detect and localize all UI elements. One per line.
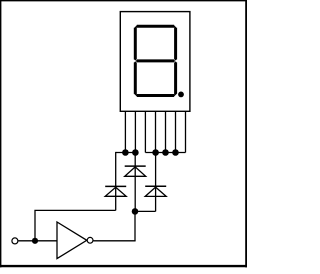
segment miter gaps (134, 25, 177, 97)
segment g (middle bar) (135, 59, 175, 62)
segment c (bottom-right vertical) (174, 61, 177, 96)
wire node down to output (134, 211, 136, 240)
diode D3 (lower-right) (145, 186, 166, 196)
junction dot pin5 (162, 149, 169, 156)
frame (decorative) (0, 0, 247, 267)
junction dot pin2 (132, 149, 139, 156)
pin wire 4 (155, 112, 157, 153)
wire input horizontal (18, 240, 57, 242)
pin wire 6 (175, 112, 177, 153)
decimal point (178, 92, 184, 98)
node junction dot (132, 208, 139, 215)
pin wire 5 (165, 112, 167, 153)
left bus wire (116, 152, 136, 154)
display outline (120, 12, 190, 112)
junction dot input (32, 238, 38, 244)
diode D2 (middle) (125, 166, 146, 176)
7-segment display DS1 (120, 12, 190, 112)
segment a (top bar) (135, 25, 175, 28)
input terminal (12, 238, 18, 244)
left bus drop wire (115, 152, 117, 211)
junction dot pin4 (152, 149, 159, 156)
right bus wire (145, 152, 185, 154)
junction dot pin1 (122, 149, 129, 156)
segment d (bottom bar) (135, 94, 175, 97)
diode D1 (lower-left) (105, 186, 126, 196)
wire input riser (35, 210, 116, 240)
wire D3 to node (horizontal) (135, 210, 156, 212)
wire output horizontal (93, 240, 135, 242)
pin wire 7 (185, 112, 187, 153)
pin wire 2 (134, 112, 136, 153)
segment f (top-left vertical) (134, 26, 137, 61)
wire bus to D3 (155, 153, 157, 212)
inverter U1 (57, 222, 93, 259)
wire D2 branch vertical (134, 153, 136, 212)
pin wire 1 (124, 112, 126, 153)
junction dot pin6 (172, 149, 179, 156)
pin wire 3 (144, 112, 146, 153)
segment e (bottom-left vertical) (134, 61, 137, 96)
segment b (top-right vertical) (174, 26, 177, 61)
